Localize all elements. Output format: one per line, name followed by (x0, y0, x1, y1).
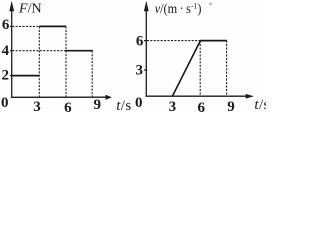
dashed vertical t=6 (199, 41, 201, 96)
svg-text:9: 9 (227, 99, 235, 113)
svg-text:6: 6 (64, 100, 72, 113)
y-axis (v axis) (145, 5, 147, 97)
svg-text:6: 6 (136, 34, 144, 50)
y tick 3 (144, 69, 147, 71)
x-axis (t axis) (146, 95, 249, 97)
svg-text:4: 4 (2, 43, 10, 59)
x-axis arrowhead (106, 95, 112, 100)
dashed vertical t=9 (91, 51, 93, 97)
svg-text:0: 0 (135, 95, 143, 111)
svg-text:9: 9 (93, 97, 101, 113)
dashed horizontal y=4 (12, 50, 66, 52)
y tick 4 (10, 50, 13, 52)
svg-text:3: 3 (169, 99, 177, 113)
svg-text:6: 6 (197, 100, 205, 113)
dashed vertical t=9 (226, 41, 228, 96)
F curve segment F=4 (6..9s) (66, 50, 93, 52)
svg-text:3: 3 (33, 99, 41, 113)
svg-text:0: 0 (1, 95, 9, 111)
dashed vertical t=3 (38, 26, 40, 96)
x-axis arrowhead (246, 94, 254, 99)
svg-text:t/s: t/s (254, 97, 266, 113)
dashed horizontal v=6 (147, 40, 200, 42)
y-axis (F axis) (11, 5, 13, 98)
v curve plateau v=6 (6..9s) (200, 40, 227, 42)
svg-text:3: 3 (135, 63, 143, 79)
y-axis arrowhead (9, 1, 14, 11)
y tick 6 (10, 25, 13, 27)
F curve segment F=2 (0..3s) (12, 75, 39, 77)
dashed vertical t=6 (65, 26, 67, 96)
y-axis arrowhead (144, 1, 149, 11)
y tick 6 (144, 40, 147, 42)
svg-text:t/s: t/s (116, 98, 131, 113)
scan noise dot (209, 2, 212, 5)
F curve segment F=6 (3..6s) (39, 25, 66, 27)
y tick 2 (10, 75, 13, 77)
svg-text:v/(m · s-1): v/(m · s-1) (155, 1, 202, 17)
x-axis (t axis) (11, 96, 107, 98)
svg-text:6: 6 (2, 17, 10, 33)
svg-text:2: 2 (2, 68, 10, 84)
dashed horizontal y=6 (12, 25, 39, 27)
svg-text:F/N: F/N (18, 2, 42, 17)
v curve ramp (3..6s) (172, 41, 200, 97)
